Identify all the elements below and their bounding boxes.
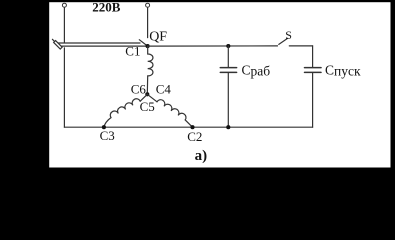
wire: left winding tail into C3 node [104, 118, 111, 128]
breaker QF right pole blade [139, 40, 147, 46]
svg-text:Сраб: Сраб [242, 62, 271, 78]
wire: run-capacitor branch upper lead [227, 46, 229, 67]
breaker QF lower linkage bar [61, 45, 147, 47]
node C3 [102, 125, 106, 129]
svg-text:C4: C4 [156, 81, 172, 96]
wire: from switch S to start-capacitor branch [289, 45, 312, 47]
node: run-capacitor bottom junction [226, 125, 230, 129]
winding C1 (vertical coil below QF junction) [147, 46, 153, 94]
svg-text:S: S [285, 28, 292, 42]
wire: left supply lead down to QF [63, 8, 65, 43]
svg-text:C2: C2 [187, 129, 202, 144]
svg-text:Спуск: Спуск [325, 62, 361, 78]
wire: run-capacitor branch lower lead [227, 73, 229, 127]
node: run-capacitor tap on top rail [226, 44, 230, 48]
svg-text:а): а) [195, 148, 208, 164]
svg-text:C1: C1 [125, 44, 140, 59]
svg-text:220В: 220В [92, 0, 121, 15]
node: QF output junction [146, 44, 150, 48]
svg-text:QF: QF [149, 29, 167, 44]
wire: bottom rail [64, 126, 312, 128]
wire: star point to right winding [147, 94, 157, 102]
svg-text:C6: C6 [131, 81, 147, 96]
switch S blade [279, 38, 288, 44]
terminal circle right (supply) [146, 3, 150, 7]
capacitor Crab plates [220, 68, 236, 73]
winding left (to C3) [109, 97, 140, 117]
node: star point of windings [145, 92, 149, 96]
wire: left lead below QF down to bottom rail corner [63, 48, 65, 127]
breaker QF upper linkage bar [58, 42, 140, 44]
wire: right supply lead down to QF blade [147, 8, 149, 38]
wire: right winding tail into C2 node [185, 120, 192, 127]
svg-text:C5: C5 [140, 99, 155, 114]
node C2 [190, 125, 194, 129]
wire: top rail from QF junction to switch S [148, 45, 278, 47]
wire: start-capacitor branch upper lead [312, 46, 314, 67]
black page background [0, 0, 395, 185]
svg-text:C3: C3 [100, 128, 115, 143]
wire: start-capacitor branch lower lead [312, 73, 314, 127]
wire: star point to left winding [140, 94, 147, 101]
breaker QF left pole blade (diagonal stripe) [52, 39, 62, 49]
capacitor Cpusk plates [305, 68, 322, 73]
terminal circle left (supply) [62, 3, 66, 7]
winding right (to C2) [157, 98, 188, 120]
white figure panel [49, 2, 390, 167]
